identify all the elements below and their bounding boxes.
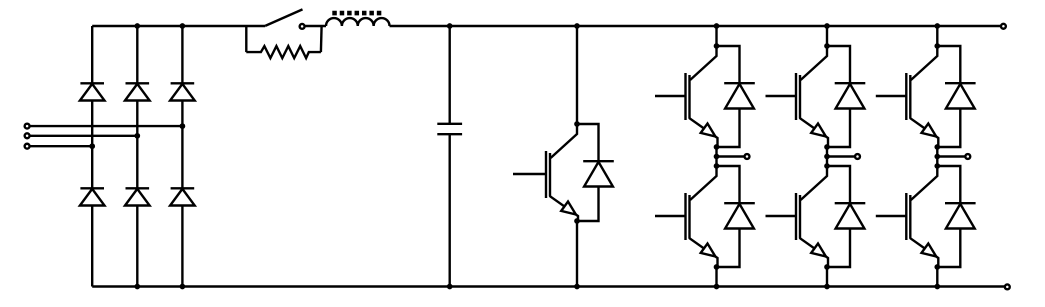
node: phase U output node [714,154,720,160]
wire: phase B line to rectifier [30,135,138,137]
wire: capacitor top lead [449,26,451,124]
wire: rectifier leg 2 vertical [136,26,138,287]
transistor Q6 (phase W lower IGBT) [876,166,939,267]
wire: phase U midpoint vertical [715,147,717,166]
wire: precharge right branch rise [320,26,323,52]
wire: phase V output stub [827,155,855,157]
node: phase V output node [824,154,830,160]
wire: phase A line to rectifier [30,125,183,127]
wire: phase V upper collector feed [826,26,828,46]
transistor Q7 (brake chopper IGBT) [513,124,578,221]
terminal: AC input phase A [25,124,30,129]
node: phase V upper collector junction [824,43,830,49]
wire: phase U upper collector feed [715,26,717,46]
diode D8 (phase U lower freewheel) [717,166,755,267]
diode D10 (phase V lower freewheel) [827,166,865,267]
diode D7 (phase U upper freewheel) [717,46,755,147]
node: phase U lower collector junction [714,163,720,169]
diode D9 (phase V upper freewheel) [827,46,865,147]
node: phase B junction [134,133,140,139]
wire: top DC+ bus, switch contact to choke [305,25,326,27]
node: phase V upper emitter junction [824,144,830,150]
node: chopper emitter junction [574,218,580,224]
node: phase W output node [934,154,940,160]
node: phase U upper collector junction [714,43,720,49]
diode D5 (rectifier upper, leg 3) [170,83,195,100]
diode D11 (phase W upper freewheel) [937,46,975,147]
node: phase V lower collector junction [824,163,830,169]
inductor L1 core (dashed bar) [332,11,382,16]
node: phase V bottom bus junction [824,284,830,290]
node: phase W upper emitter junction [934,144,940,150]
wire: phase V midpoint vertical [826,147,828,166]
node: phase U top bus junction [714,23,720,29]
inductor L1 (DC choke) [326,18,390,26]
transistor Q1 (phase U upper IGBT) [655,46,718,147]
wire: phase U emitter return [715,267,717,287]
transistor Q5 (phase W upper IGBT) [876,46,939,147]
node: phase U bottom bus junction [714,284,720,290]
capacitor C1 (DC link) [437,124,462,134]
node: phase A junction [180,123,186,129]
wire: phase W output stub [937,155,965,157]
transistor Q3 (phase V upper IGBT) [766,46,829,147]
diode D6 (rectifier lower, leg 3) [170,188,195,205]
terminal: AC input phase B [25,133,30,138]
diode D13 (chopper freewheel) [577,124,614,221]
terminal: DC- output [1005,284,1010,289]
diode D1 (rectifier upper, leg 1) [80,83,105,100]
node: phase W lower emitter junction [934,264,940,270]
wire: phase U output stub [717,155,745,157]
node: capacitor bottom bus junction [447,284,453,290]
transistor Q4 (phase V lower IGBT) [766,166,829,267]
terminal: motor phase W output [965,154,970,159]
node: leg 3 top bus junction [180,23,186,29]
diode D3 (rectifier upper, leg 2) [125,83,150,100]
node: leg 2 top bus junction [134,23,140,29]
node: phase W top bus junction [934,23,940,29]
node: phase W bottom bus junction [934,284,940,290]
wire: phase V emitter return [826,267,828,287]
wire: capacitor bottom lead [449,134,451,286]
diode D2 (rectifier lower, leg 1) [80,188,105,205]
wire: phase W emitter return [936,267,938,287]
wire: phase C line to rectifier [30,145,93,147]
wire: top DC+ bus, rectifier to switch [92,25,265,27]
node: phase U lower emitter junction [714,264,720,270]
transistor Q2 (phase U lower IGBT) [655,166,718,267]
node: capacitor top bus junction [447,23,453,29]
wire: phase W midpoint vertical [936,147,938,166]
terminal: AC input phase C [25,144,30,149]
wire: chopper collector feed [576,26,578,124]
wire: rectifier leg 1 vertical [91,26,93,287]
node: phase V lower emitter junction [824,264,830,270]
diode D4 (rectifier lower, leg 2) [125,188,150,205]
terminal: motor phase U output [745,154,750,159]
node: chopper collector junction [574,121,580,127]
wire: precharge left branch drop [245,26,247,52]
node: phase V top bus junction [824,23,830,29]
wire: bottom DC- bus [92,285,1004,287]
node: phase W upper collector junction [934,43,940,49]
terminal: DC+ output [1001,24,1006,29]
diode D12 (phase W lower freewheel) [937,166,975,267]
wire: phase W upper collector feed [936,26,938,46]
switch S1 (bypass contactor, open blade) [265,9,304,28]
node: phase W lower collector junction [934,163,940,169]
node: phase U upper emitter junction [714,144,720,150]
node: leg 3 bottom bus junction [180,284,186,290]
terminal: motor phase V output [855,154,860,159]
node: chopper top bus junction [574,23,580,29]
wire: chopper emitter return [576,221,578,287]
wire: top DC+ bus, choke to DC+ terminal [390,25,1001,27]
node: leg 2 bottom bus junction [134,284,140,290]
node: chopper bottom bus junction [574,284,580,290]
wire: rectifier leg 3 vertical [181,26,183,287]
node: phase C junction [89,143,95,149]
resistor R1 (precharge) [246,46,321,58]
